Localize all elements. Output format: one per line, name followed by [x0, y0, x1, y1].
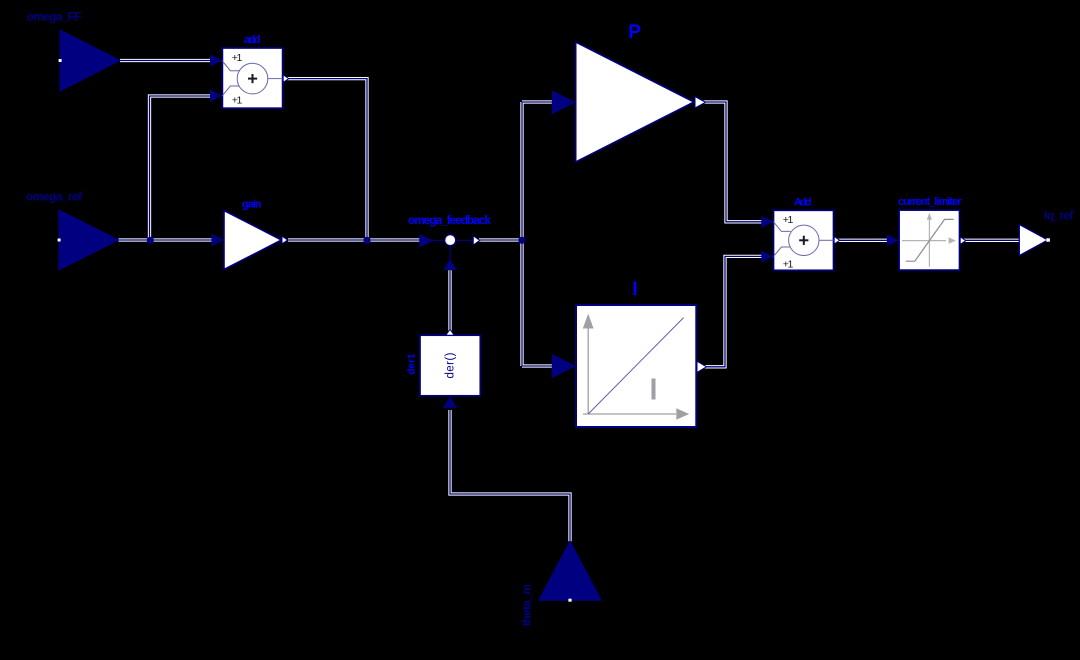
svg-text:omega_FF: omega_FF: [27, 10, 82, 24]
svg-text:I: I: [632, 278, 637, 300]
svg-text:omega_ref: omega_ref: [26, 190, 83, 204]
svg-text:theta_m: theta_m: [520, 584, 534, 626]
svg-text:gain: gain: [242, 198, 262, 210]
svg-text:current_limiter: current_limiter: [898, 196, 962, 208]
svg-text:Iq_ref: Iq_ref: [1044, 209, 1075, 223]
svg-text:+1: +1: [783, 258, 794, 270]
svg-text:Add: Add: [794, 196, 812, 208]
svg-text:+1: +1: [232, 95, 243, 107]
svg-text:P: P: [628, 22, 641, 43]
svg-text:der1: der1: [407, 353, 418, 374]
svg-text:+1: +1: [232, 52, 243, 64]
svg-text:omega_feedback: omega_feedback: [408, 213, 491, 227]
svg-text:add: add: [244, 34, 261, 46]
svg-text:+1: +1: [783, 214, 794, 226]
svg-text:der(): der(): [445, 352, 457, 378]
